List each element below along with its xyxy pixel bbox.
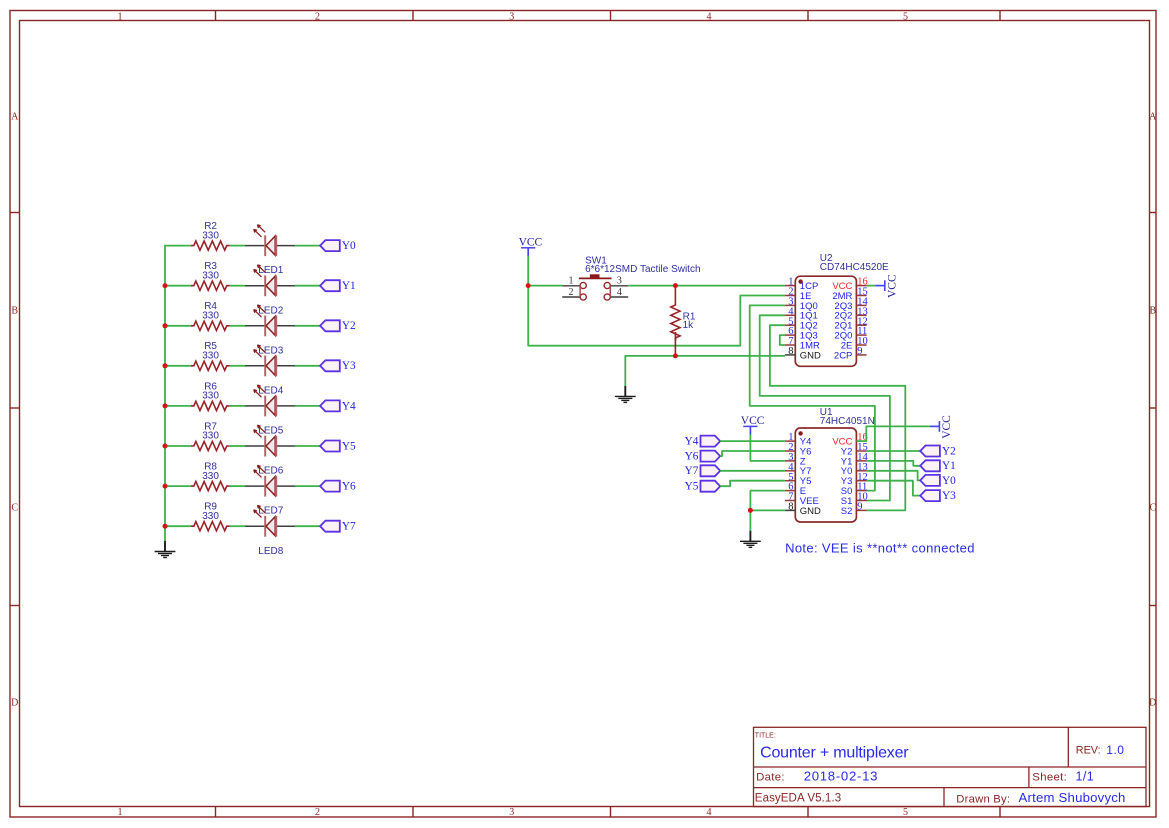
wire: U1 Y0 pin to flag [867,471,921,481]
svg-text:C: C [1149,503,1156,514]
junction: VCC node [526,283,531,288]
wire: bus to ground [164,526,166,541]
svg-text:2: 2 [569,287,574,298]
U2 pin 2 (1E) [785,295,795,297]
svg-text:EasyEDA V5.1.3: EasyEDA V5.1.3 [755,793,841,805]
wire: U2 1Q0 to U1 S0 [750,305,875,490]
wire: VCC node to U2 pin2 (1E) [528,286,785,346]
wire: clock node to U2 pin1 [675,285,785,287]
U1 pin 6 (E) [785,490,795,492]
power VCC (U2) [875,274,898,298]
wire: U1 Y1 pin to flag [867,461,921,466]
junction: bus row 7 [163,524,168,529]
net label Y0 [320,240,356,252]
U1 pin 4 (Y7) [785,470,795,472]
U1 pin 2 (Y6) [785,450,795,452]
svg-text:6*6*12SMD Tactile Switch: 6*6*12SMD Tactile Switch [585,264,700,275]
svg-text:LED6: LED6 [258,466,283,477]
ground (LED ladder) [155,541,176,558]
svg-text:330: 330 [202,270,219,281]
net label Y5 [685,481,721,493]
U1 pin 3 (Z) [785,460,795,462]
svg-text:Y5: Y5 [342,440,356,452]
wire: bus to R3 [164,285,191,287]
svg-text:9: 9 [857,502,862,513]
net label Y1 [920,460,956,472]
wire: R3 to LED2 [230,285,246,287]
U1 pin 9 (S2) [856,509,866,511]
U2 pin 10 (2E) [856,344,866,346]
U2 pin 7 (1MR) [785,344,795,346]
svg-text:Note: VEE is **not** connected: Note: VEE is **not** connected [785,541,975,556]
svg-text:Y4: Y4 [685,436,699,448]
wire: bus to R6 [164,405,191,407]
wire: LED2 to Y1 flag [295,285,321,287]
svg-text:B: B [11,306,18,317]
resistor R7 330 [191,421,230,450]
net label Y5 [320,440,356,452]
resistor R8 330 [191,462,230,491]
wire: R4 to LED3 [230,325,246,327]
junction: clock node [673,283,678,288]
wire: LED6 to Y5 flag [295,445,321,447]
LED LED4 [245,345,295,397]
wire: R2 to LED1 [230,245,246,247]
svg-text:D: D [1149,698,1156,709]
svg-text:VCC: VCC [887,274,899,298]
svg-text:LED1: LED1 [258,265,283,276]
power VCC (U1 right) [930,415,953,439]
svg-text:REV:: REV: [1076,744,1101,756]
wire: U1 Y2 pin to flag [867,450,921,452]
svg-text:Y0: Y0 [942,475,956,487]
wire: VCC node to SW1 pin1 [528,285,562,287]
svg-text:1k: 1k [683,320,695,331]
svg-text:Y3: Y3 [342,360,356,372]
svg-text:Y2: Y2 [942,445,956,457]
svg-text:LED3: LED3 [258,345,283,356]
svg-text:Drawn By:: Drawn By: [956,793,1010,805]
svg-text:CD74HC4520E: CD74HC4520E [820,262,889,273]
wire: bus to R9 [164,525,191,527]
svg-text:Y6: Y6 [685,451,699,463]
wire: bus to R2 [164,245,191,247]
U2 pin 9 (2CP) [856,354,866,356]
svg-text:3: 3 [509,807,514,818]
svg-text:VCC: VCC [941,415,953,439]
wire: U2 1Q1 to U1 S1 [760,315,890,500]
wire: VCC to U1 Z [750,434,785,461]
svg-text:1: 1 [569,276,574,287]
U2 pin 12 (2Q1) [856,324,866,326]
net label Y1 [320,280,356,292]
svg-text:4: 4 [707,11,712,22]
ground (switch section) [615,386,636,403]
U2 pin 5 (1Q2) [785,324,795,326]
U2 pin 4 (1Q1) [785,314,795,316]
net label Y6 [685,451,721,463]
net label Y0 [920,475,956,487]
svg-text:GND: GND [800,350,821,361]
svg-text:VCC: VCC [741,415,765,427]
svg-text:LED5: LED5 [258,426,283,437]
wire: LED4 to Y3 flag [295,365,321,367]
wire: Y5 flag to U1 pin5 [720,481,785,487]
svg-text:TITLE:: TITLE: [755,733,776,740]
wire: R6 to LED5 [230,405,246,407]
wire: LED3 to Y2 flag [295,325,321,327]
svg-text:Y1: Y1 [942,460,956,472]
svg-text:LED4: LED4 [258,385,283,396]
svg-text:Y7: Y7 [342,521,356,533]
wire: U2 1Q2 to U1 S2 [770,325,905,510]
svg-text:Y7: Y7 [685,465,699,477]
U1 pin 1 (Y4) [785,440,795,442]
net label Y6 [320,481,356,493]
wire: U2 VCC pin to power [867,285,876,287]
U2 pin 1 (1CP) [785,285,795,287]
resistor R3 330 [191,261,230,290]
svg-text:Y4: Y4 [342,400,356,412]
U2 pin 15 (2MR) [856,295,866,297]
svg-text:A: A [1149,112,1157,123]
resistor R1 1k [674,286,676,302]
svg-text:330: 330 [202,431,219,442]
svg-text:4: 4 [617,287,622,298]
U1 pin 14 (Y1) [856,460,866,462]
svg-text:Y0: Y0 [342,240,356,252]
wire: Y4 flag to U1 pin1 [720,440,785,442]
LED LED7 [245,465,295,517]
net label Y3 [320,360,356,372]
op-amp U1 74HC4051N [785,407,875,522]
LED LED3 [245,305,295,357]
resistor R5 330 [191,341,230,370]
U1 pin 13 (Y0) [856,470,866,472]
junction: bus row 6 [163,484,168,489]
svg-text:VCC: VCC [519,236,543,248]
net label Y2 [920,445,956,457]
svg-text:3: 3 [509,11,514,22]
U1 pin 12 (Y3) [856,480,866,482]
U2 pin 8 (GND) [785,354,795,356]
wire: LED8 to Y7 flag [295,525,321,527]
svg-text:D: D [11,698,18,709]
wire: U1 Y3 pin to flag [867,481,921,496]
svg-text:C: C [11,503,18,514]
svg-text:A: A [11,112,19,123]
svg-text:2: 2 [315,807,320,818]
wire: bus to R4 [164,325,191,327]
resistor R6 330 [191,381,230,410]
wire: R7 to LED6 [230,445,246,447]
U2 pin 14 (2Q3) [856,304,866,306]
svg-text:2CP: 2CP [834,350,852,361]
power VCC (switch section) [519,236,543,256]
svg-text:Y3: Y3 [942,490,956,502]
resistor R4 330 [191,301,230,330]
U2 pin 11 (2Q0) [856,334,866,336]
svg-text:Y5: Y5 [685,481,699,493]
svg-text:2018-02-13: 2018-02-13 [804,769,878,784]
U1 pin 11 (S0) [856,490,866,492]
net label Y2 [320,320,356,332]
LED LED1 [245,225,295,277]
wire: VCC to junction [527,256,529,286]
power VCC (U1 Z pin) [741,415,765,435]
wire: SW1 pin3 to clock node [628,285,675,287]
wire: GND rail to U2 pin8 [625,356,785,386]
svg-text:Sheet:: Sheet: [1032,772,1067,784]
svg-text:Y1: Y1 [342,280,356,292]
svg-text:5: 5 [903,807,908,818]
svg-text:LED2: LED2 [258,305,283,316]
junction: bus row 2 [163,323,168,328]
svg-text:330: 330 [202,311,219,322]
junction: R1 to GND rail [673,353,678,358]
svg-text:1.0: 1.0 [1106,743,1124,757]
net label Y3 [920,490,956,502]
svg-text:Counter + multiplexer: Counter + multiplexer [760,744,909,761]
U2 pin 6 (1Q3) [785,334,795,336]
wire: bus to R8 [164,485,191,487]
U2 pin 13 (2Q2) [856,314,866,316]
svg-text:LED8: LED8 [258,546,283,557]
svg-text:Artem Shubovych: Artem Shubovych [1019,790,1126,805]
net label Y7 [320,521,356,533]
U1 pin 5 (Y5) [785,480,795,482]
U1 pin 8 (GND) [785,509,795,511]
junction: bus row 1 [163,283,168,288]
svg-text:8: 8 [788,502,793,513]
svg-text:3: 3 [617,276,622,287]
U2 pin 3 (1Q0) [785,304,795,306]
wire: bus to R5 [164,365,191,367]
junction: bus row 4 [163,403,168,408]
wire: U1 VCC pin to power [856,426,930,441]
op-amp U2 CD74HC4520E [785,253,889,366]
LED LED5 [245,385,295,437]
net label Y4 [320,400,356,412]
svg-text:Y6: Y6 [342,481,356,493]
wire: R9 to LED8 [230,525,246,527]
net label Y4 [685,436,721,448]
svg-text:LED7: LED7 [258,506,283,517]
ground (U1) [740,531,761,548]
LED LED2 [245,265,295,317]
svg-text:74HC4051N: 74HC4051N [820,416,875,427]
svg-text:Y2: Y2 [342,320,356,332]
LED LED8 [245,505,295,557]
wire: LED5 to Y4 flag [295,405,321,407]
svg-text:1: 1 [118,11,123,22]
wire: U2 1Q3 to 1MR [780,335,785,345]
U1 pin 7 (VEE) [785,500,795,502]
U2 pin 16 (VCC) [856,285,866,287]
svg-text:B: B [1149,306,1156,317]
wire: bus to R7 [164,445,191,447]
svg-text:2: 2 [315,11,320,22]
svg-text:GND: GND [800,506,821,517]
wire: ground node to U1 GND pin [750,509,785,511]
svg-text:330: 330 [202,511,219,522]
wire: ground node down [749,510,751,531]
svg-text:330: 330 [202,351,219,362]
junction: bus row 3 [163,363,168,368]
svg-text:8: 8 [788,346,793,357]
switch SW1 6*6*12SMD Tactile Switch [562,255,700,300]
svg-text:9: 9 [857,346,862,357]
junction: U1 ground node [748,508,753,513]
wire: R5 to LED4 [230,365,246,367]
junction: bus row 5 [163,444,168,449]
svg-text:330: 330 [202,391,219,402]
U1 pin 15 (Y2) [856,450,866,452]
resistor R2 330 [191,221,230,250]
wire: Y6 flag to U1 pin2 [720,451,785,456]
svg-text:Date:: Date: [756,771,785,783]
LED LED6 [245,425,295,477]
svg-text:5: 5 [903,11,908,22]
svg-text:S2: S2 [841,506,853,517]
wire: LED7 to Y6 flag [295,485,321,487]
wire: LED1 to Y0 flag [295,245,321,247]
svg-text:330: 330 [202,230,219,241]
U1 pin 16 (VCC) [856,440,866,442]
wire: R8 to LED7 [230,485,246,487]
svg-text:4: 4 [707,807,712,818]
svg-text:1/1: 1/1 [1076,770,1095,784]
wire: U1 E to ground [750,491,785,511]
svg-text:1: 1 [118,807,123,818]
svg-text:330: 330 [202,471,219,482]
U1 pin 10 (S1) [856,500,866,502]
net label Y7 [685,465,721,477]
resistor R9 330 [191,502,230,531]
wire: left vertical bus [164,246,166,527]
wire: Y7 flag to U1 pin4 [720,470,785,472]
